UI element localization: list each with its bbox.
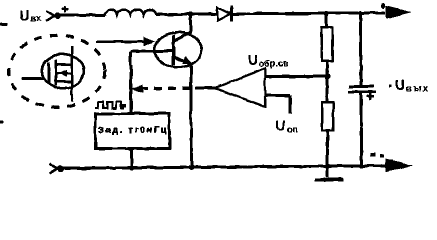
svg-text:вх: вх [30,13,41,23]
svg-text:U: U [275,117,285,133]
svg-text:Зад. тг0нГц: Зад. тг0нГц [98,124,167,135]
svg-text:U: U [19,7,29,23]
svg-text:оп: оп [287,124,298,134]
svg-text:обр.св: обр.св [259,58,289,68]
svg-text:вых: вых [406,83,430,94]
svg-text:U: U [248,52,258,68]
svg-text:U: U [395,77,405,93]
